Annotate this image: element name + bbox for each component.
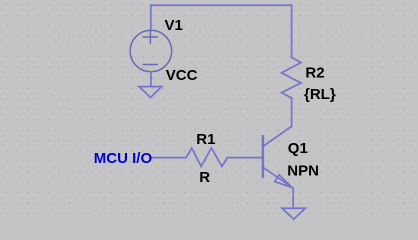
svg-text:{RL}: {RL} bbox=[304, 86, 336, 103]
wire V1 bottom to ground bbox=[150, 72, 152, 87]
wire Q1 emitter to ground bbox=[292, 188, 294, 208]
wire V1 top pin to rail bbox=[150, 5, 152, 30]
transistor Q1 bbox=[263, 126, 293, 188]
wire R2 bottom to Q1 collector bbox=[291, 98, 293, 126]
svg-text:MCU I/O: MCU I/O bbox=[94, 150, 153, 167]
wire MCU I/O to R1 bbox=[152, 157, 187, 159]
resistor R1 bbox=[186, 148, 227, 166]
voltage source V1 bbox=[130, 30, 172, 72]
wire top rail bbox=[151, 4, 292, 6]
wire R1 to Q1 base bbox=[227, 157, 263, 159]
svg-text:NPN: NPN bbox=[287, 163, 319, 180]
svg-text:R: R bbox=[199, 169, 210, 186]
resistor R2 bbox=[282, 57, 301, 98]
svg-text:VCC: VCC bbox=[166, 67, 198, 84]
ground below Q1 bbox=[282, 208, 305, 219]
svg-text:V1: V1 bbox=[165, 17, 183, 34]
svg-text:R1: R1 bbox=[196, 131, 215, 148]
ground below V1 bbox=[139, 87, 162, 98]
wire rail down to R2 bbox=[291, 5, 293, 57]
svg-text:Q1: Q1 bbox=[288, 140, 308, 157]
svg-text:R2: R2 bbox=[305, 65, 324, 82]
